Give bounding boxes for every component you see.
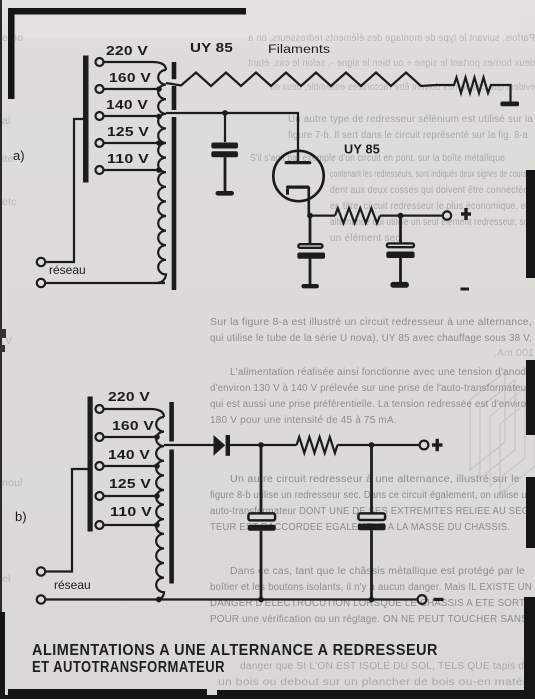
svg-text:140 V: 140 V [106,98,149,112]
paper lighter zones [16,16,521,38]
wire 160V tap b [104,436,159,438]
svg-text:180 V pour une intensité de 45: 180 V pour une intensité de 45 à 75 mA. [210,415,397,426]
capacitor C2 [309,216,312,244]
svg-text:ALIMENTATIONS A UNE ALTERNANCE: ALIMENTATIONS A UNE ALTERNANCE A REDRESS… [32,642,438,659]
svg-text:Filaments: Filaments [268,44,330,56]
selector bar B [88,397,93,532]
capacitor C3 [399,216,402,244]
svg-text:al: al [2,115,11,127]
node C1 junction [222,110,228,116]
svg-text:contenant les redresseurs, son: contenant les redresseurs, sont indiqués… [330,169,533,180]
terminal 125V [96,139,104,147]
page edge right bars [526,170,535,278]
wire 220V tap [104,62,166,70]
wire cathode to resistor [310,215,335,217]
wire 140V tap [104,115,161,117]
svg-text:110 V: 110 V [107,152,150,166]
node Cb2 junction [369,442,375,448]
page edge left bar [8,8,15,99]
terminal 140V [96,112,104,120]
terminal 110V b [96,521,104,529]
terminal 160V b [96,433,104,441]
svg-text:d'environ 130 V à 140 V prélev: d'environ 130 V à 140 V prélevée sur une… [210,383,532,394]
node 125V tap b [154,493,160,499]
wire 140V tap to anode [166,113,298,152]
wire tap to diode [164,444,214,446]
node 160V tap b [154,434,160,440]
svg-text:etc: etc [2,196,17,208]
tube cathode lead [307,187,310,216]
svg-text:noul: noul [2,477,23,489]
heatsink bleed-through [470,372,505,470]
node cathode junction [307,213,313,219]
svg-text:ite: ite [2,153,14,165]
svg-text:110 V: 110 V [110,505,153,519]
tube anode lead [297,152,299,161]
svg-text:160 V: 160 V [109,71,152,85]
svg-text:POUR une vérification ou un ré: POUR une vérification ou un réglage. ON … [210,614,528,625]
transformer T2 winding [156,417,164,599]
svg-text:ET AUTOTRANSFORMATEUR: ET AUTOTRANSFORMATEUR [32,659,225,676]
svg-text:b): b) [15,509,27,524]
svg-text:qui utilise le tube de la séri: qui utilise le tube de la série U nova),… [210,333,532,344]
svg-text:125 V: 125 V [107,125,150,139]
wire 220V tap b [104,409,164,417]
tube anode plate [285,161,312,164]
page edge top bar [8,8,246,15]
node 125V tap [156,140,162,146]
reseau terminal 2 B [37,595,45,603]
svg-text:réseau: réseau [49,263,86,277]
wire 125V tap [104,142,161,144]
svg-text:a): a) [13,148,25,163]
capacitor C1 [224,113,226,142]
terminal 220V [96,58,104,66]
node coil rail b [156,597,162,603]
chassis stub (filament end) [501,102,520,107]
selector bar A [83,56,89,183]
node 110V tap [156,167,162,173]
wire reseau to selector B [45,469,87,572]
page edge bottom bars [8,689,207,695]
node 140V tap [156,114,162,120]
terminal 110V [96,166,104,174]
svg-text:Un autre type de redresseur sé: Un autre type de redresseur sélénium est… [288,114,533,125]
svg-text:un bois ou debout sur un planc: un bois ou debout sur un plancher de boi… [218,677,530,688]
node 140V tap b [154,463,160,469]
reseau terminal 1 B [37,567,45,575]
svg-text:danger que SI L'ON EST ISOLE D: danger que SI L'ON EST ISOLE DU SOL, TEL… [240,661,530,672]
wire 110V tap [104,169,161,171]
node 160V tap [156,86,162,92]
wire reseau to selector A [45,119,83,262]
svg-text:125 V: 125 V [109,477,152,491]
svg-text:évident que ces bornes doivent: évident que ces bornes doivent être racc… [270,81,535,93]
plus sign A [461,212,471,215]
wire 140V tap b [104,465,159,467]
svg-text:dent aux deux cosses qui doive: dent aux deux cosses qui doivent être co… [330,185,533,196]
svg-text:Dans ce cas, tant que le châss: Dans ce cas, tant que le châssis métalli… [230,566,525,577]
transformer T1 core [172,62,177,79]
wire resistor to + output [380,215,443,217]
svg-text:UY 85: UY 85 [344,143,380,157]
resistor R2 [297,437,338,453]
node 110V tap b [154,522,160,528]
svg-text:160 V: 160 V [112,419,155,433]
wire 125V tap b [104,495,159,497]
svg-text:Parfois, suivant le type de mo: Parfois, suivant le type de montage des … [248,32,535,44]
wire diode to resistor [230,444,297,446]
capacitor Cb1 [260,445,263,513]
svg-text:Un autre circuit redresseur à: Un autre circuit redresseur à une altern… [230,474,520,485]
svg-text:figure 7-b. Il sert dans le ci: figure 7-b. Il sert dans le circuit repr… [288,130,528,141]
node Cb1 rail [258,597,264,603]
svg-text:220 V: 220 V [108,390,151,404]
wire resistor to + output b [338,444,420,446]
terminal + output A [443,211,451,219]
svg-text:el: el [2,573,11,585]
terminal - output B [418,595,427,604]
svg-text:deux bornes portant le signe +: deux bornes portant le signe + ou bien l… [248,57,535,69]
svg-text:UY 85: UY 85 [190,41,233,55]
diode D1 [214,435,226,456]
svg-text:Sur la figure 8-a est illustré: Sur la figure 8-a est illustré un circui… [210,317,532,328]
capacitor Cb2 [370,445,373,513]
reseau terminal 2 A [37,279,45,287]
tube UY85 envelope [273,151,323,201]
wire 160V tap [104,88,161,90]
transformer T2 core [169,402,174,442]
minus sign B [434,598,444,601]
svg-text:L'alimentation réalisée ainsi: L'alimentation réalisée ainsi fonctionne… [230,367,532,378]
tube cathode [286,186,310,189]
svg-text:220 V: 220 V [106,44,149,58]
terminal 140V b [96,462,104,470]
svg-text:140 V: 140 V [108,448,151,462]
plus sign B [432,443,443,446]
svg-text:alternance qui utilise un seul: alternance qui utilise un seul élément r… [330,217,533,228]
minus sign A [461,288,470,291]
resistor R1 [335,208,380,223]
svg-text:réseau: réseau [54,578,91,592]
node Cb1 junction [258,442,264,448]
svg-text:100 mA.: 100 mA. [493,347,534,359]
transformer T1 winding [158,70,166,283]
terminal 125V b [96,492,104,500]
svg-text:qui est aussi une prise préfér: qui est aussi une prise préférentielle. … [210,399,532,410]
terminal 220V b [96,405,104,413]
filament chain (heater string) [166,73,436,87]
wire reseau to coil bottom A [45,282,165,284]
resistor filament-dropper [436,78,511,103]
node Cb2 rail [369,597,375,603]
wire 110V tap b [104,524,159,526]
terminal 160V [96,85,104,93]
wire bottom rail B [45,598,417,600]
page edge left line [0,0,2,699]
node C3 junction [398,213,404,219]
terminal + output B [420,441,429,450]
reseau terminal 1 A [37,258,45,266]
